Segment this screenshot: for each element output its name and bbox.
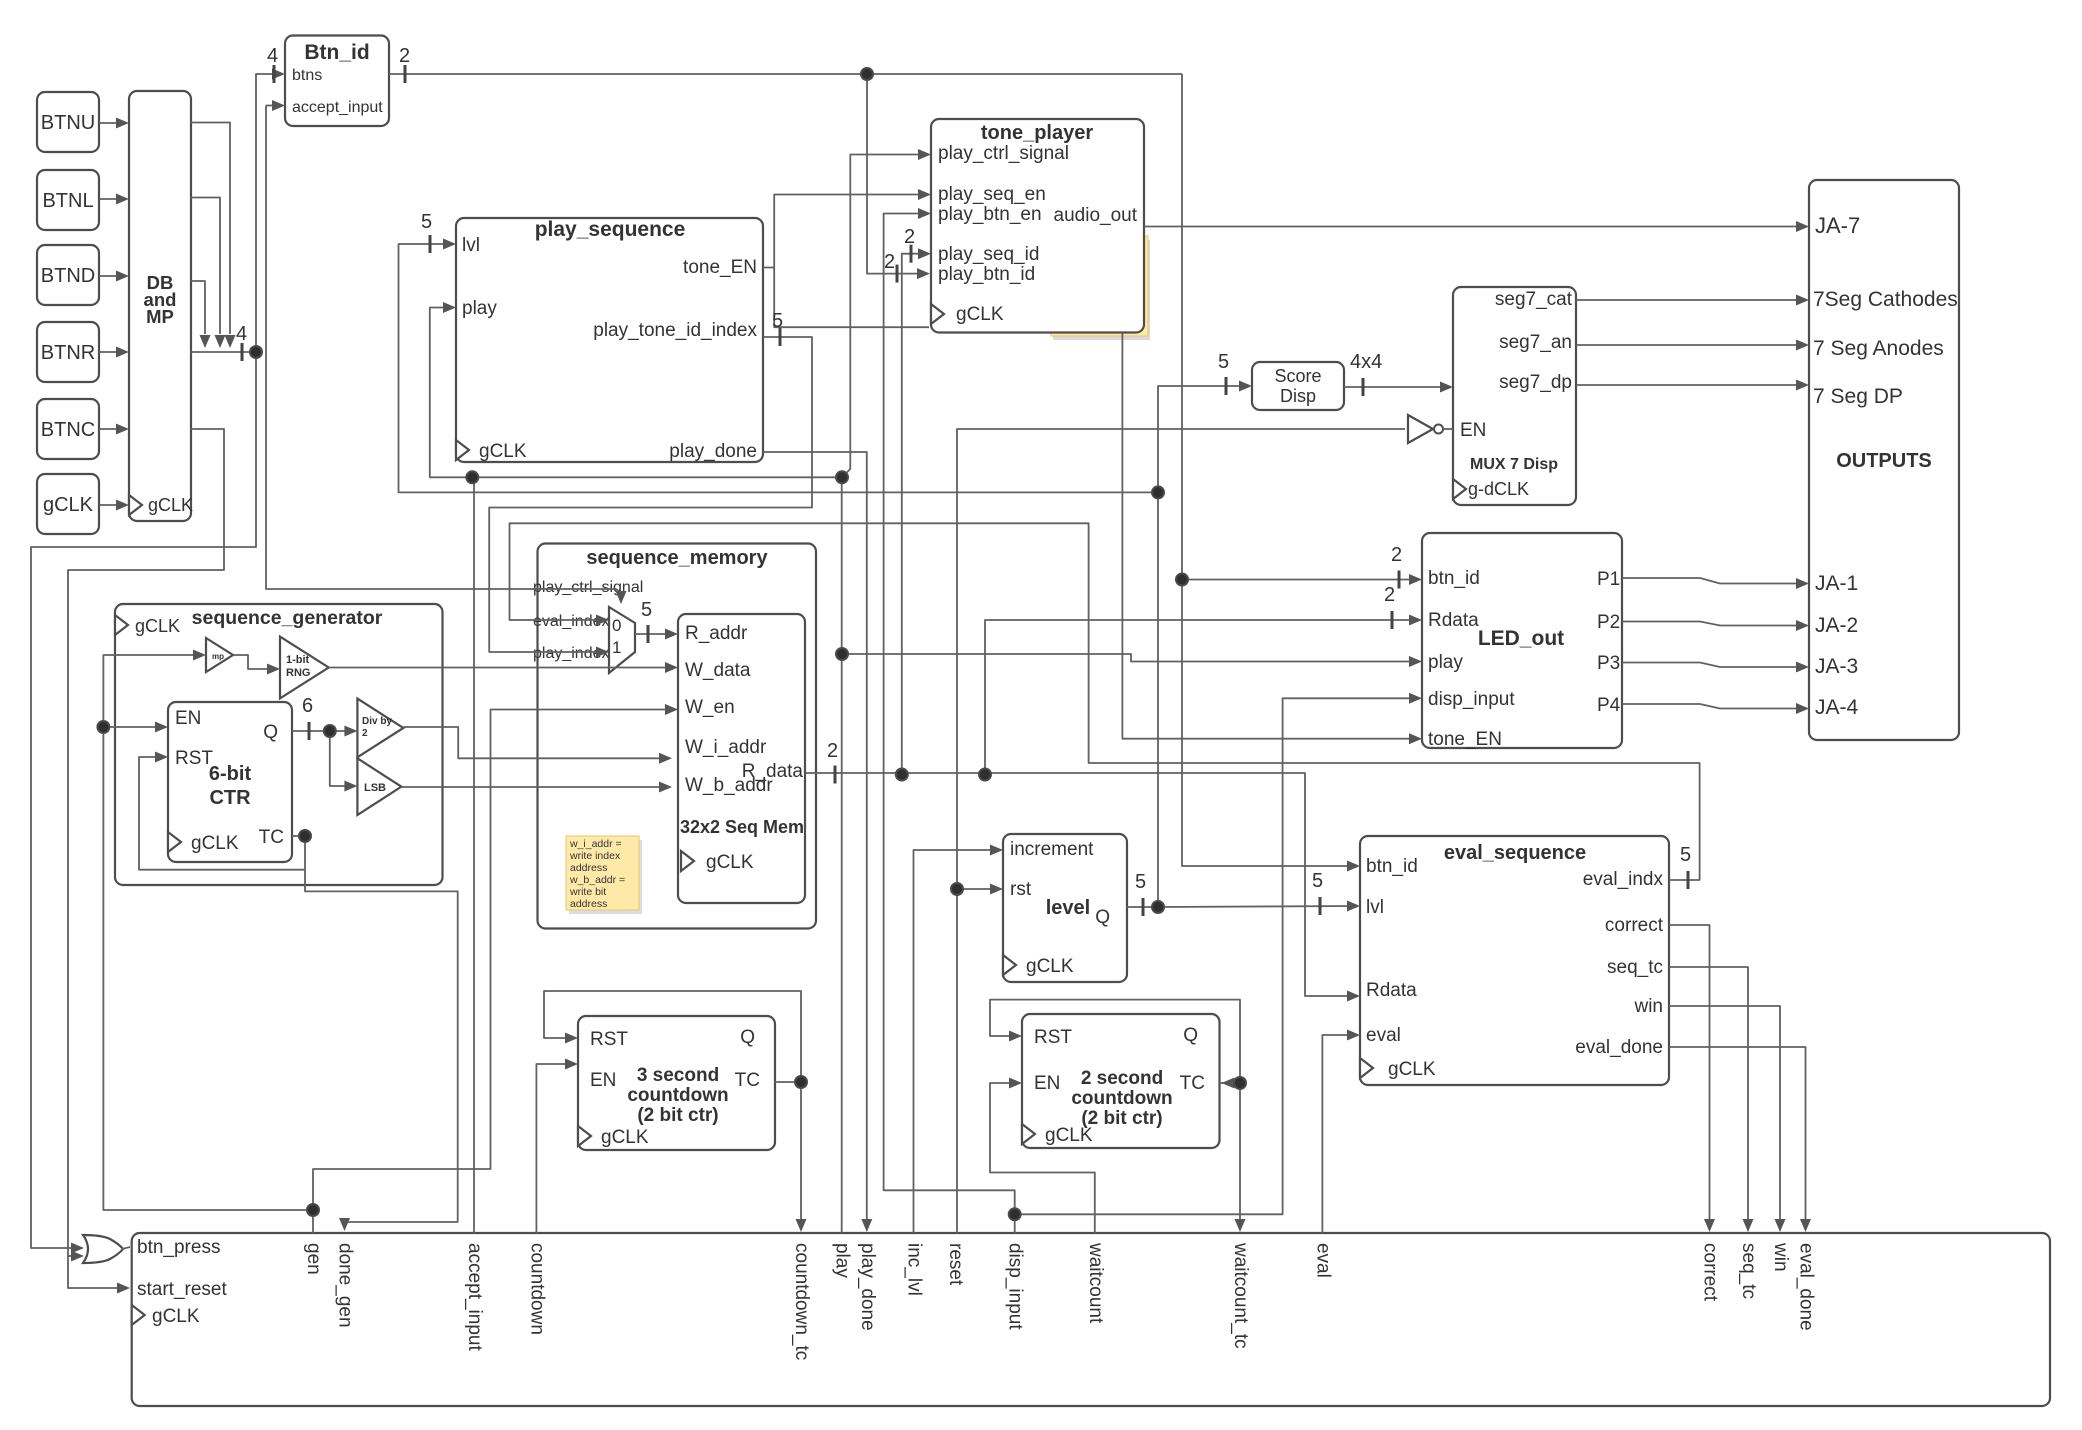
svg-text:BTNU: BTNU — [41, 112, 95, 134]
svg-text:correct: correct — [1700, 1243, 1721, 1302]
svg-text:play_done: play_done — [669, 441, 757, 462]
svg-text:2: 2 — [1391, 544, 1402, 566]
svg-text:EN: EN — [175, 708, 201, 729]
svg-text:waitcount_tc: waitcount_tc — [1230, 1242, 1251, 1349]
svg-text:JA-7: JA-7 — [1815, 213, 1860, 238]
svg-text:tone_player: tone_player — [981, 122, 1093, 144]
svg-text:play_ctrl_signal: play_ctrl_signal — [533, 579, 643, 596]
svg-text:5: 5 — [421, 211, 432, 233]
svg-text:countdown: countdown — [627, 1085, 728, 1106]
svg-text:6: 6 — [302, 695, 313, 717]
svg-text:2: 2 — [884, 251, 895, 273]
svg-text:EN: EN — [590, 1070, 616, 1091]
svg-text:1: 1 — [612, 638, 621, 657]
svg-text:7 Seg DP: 7 Seg DP — [1813, 385, 1903, 408]
svg-text:eval_done: eval_done — [1575, 1037, 1663, 1058]
svg-text:gCLK: gCLK — [956, 304, 1004, 325]
svg-text:2: 2 — [1384, 584, 1395, 606]
svg-text:JA-2: JA-2 — [1815, 614, 1858, 637]
svg-text:eval: eval — [1366, 1025, 1401, 1046]
svg-text:3 second: 3 second — [637, 1065, 719, 1086]
svg-text:4x4: 4x4 — [1350, 351, 1382, 373]
svg-text:address: address — [570, 898, 607, 910]
svg-text:5: 5 — [641, 599, 652, 621]
svg-text:countdown: countdown — [526, 1243, 547, 1335]
svg-text:gCLK: gCLK — [601, 1127, 649, 1148]
svg-text:P3: P3 — [1597, 653, 1620, 674]
svg-text:write index: write index — [569, 850, 621, 862]
svg-text:tone_EN: tone_EN — [1428, 729, 1502, 750]
svg-text:mp: mp — [212, 652, 224, 661]
svg-text:play_done: play_done — [857, 1243, 878, 1331]
svg-text:LED_out: LED_out — [1478, 627, 1564, 650]
svg-text:Q: Q — [740, 1027, 755, 1048]
svg-text:win: win — [1633, 996, 1663, 1017]
svg-text:play_btn_id: play_btn_id — [938, 264, 1035, 285]
svg-text:0: 0 — [612, 616, 621, 635]
svg-text:waitcount: waitcount — [1085, 1242, 1106, 1324]
svg-text:Score: Score — [1274, 366, 1321, 386]
svg-text:accept_input: accept_input — [464, 1243, 485, 1351]
svg-text:RNG: RNG — [286, 667, 310, 679]
svg-text:accept_input: accept_input — [292, 99, 383, 116]
svg-text:W_b_addr: W_b_addr — [685, 775, 773, 796]
svg-text:32x2 Seq Mem: 32x2 Seq Mem — [680, 817, 804, 837]
svg-text:P1: P1 — [1597, 569, 1620, 590]
svg-text:gCLK: gCLK — [479, 441, 527, 462]
svg-text:play: play — [1428, 652, 1463, 673]
svg-text:gCLK: gCLK — [191, 833, 239, 854]
svg-text:gCLK: gCLK — [43, 494, 94, 516]
svg-text:JA-1: JA-1 — [1815, 572, 1858, 595]
svg-text:address: address — [570, 862, 607, 874]
svg-text:w_b_addr =: w_b_addr = — [569, 874, 625, 886]
svg-text:gCLK: gCLK — [135, 616, 180, 636]
svg-text:countdown_tc: countdown_tc — [791, 1243, 812, 1360]
svg-text:level: level — [1046, 897, 1090, 919]
svg-text:g-dCLK: g-dCLK — [1468, 479, 1529, 499]
svg-text:Div by: Div by — [362, 716, 392, 727]
svg-text:win: win — [1770, 1242, 1791, 1272]
svg-text:rst: rst — [1010, 879, 1032, 900]
svg-text:gCLK: gCLK — [148, 495, 193, 515]
svg-text:write bit: write bit — [569, 886, 606, 898]
svg-text:seg7_an: seg7_an — [1499, 332, 1572, 353]
svg-text:W_data: W_data — [685, 660, 751, 681]
svg-text:OUTPUTS: OUTPUTS — [1836, 450, 1932, 472]
svg-text:1-bit: 1-bit — [286, 654, 310, 666]
svg-text:TC: TC — [1180, 1073, 1205, 1094]
svg-text:w_i_addr =: w_i_addr = — [569, 838, 622, 850]
svg-text:W_i_addr: W_i_addr — [685, 737, 767, 758]
svg-text:seq_tc: seq_tc — [1607, 957, 1663, 978]
svg-text:RST: RST — [175, 748, 213, 769]
svg-text:W_en: W_en — [685, 697, 735, 718]
svg-text:eval: eval — [1312, 1243, 1333, 1278]
svg-text:eval_done: eval_done — [1796, 1243, 1817, 1331]
svg-text:play_seq_id: play_seq_id — [938, 244, 1039, 265]
svg-text:R_addr: R_addr — [685, 623, 748, 644]
svg-text:2: 2 — [362, 728, 368, 739]
svg-text:play: play — [832, 1243, 853, 1278]
svg-text:(2 bit ctr): (2 bit ctr) — [1081, 1108, 1162, 1129]
svg-text:CTR: CTR — [209, 787, 251, 809]
svg-text:Q: Q — [1183, 1025, 1198, 1046]
svg-text:eval_sequence: eval_sequence — [1444, 842, 1586, 864]
svg-text:P4: P4 — [1597, 695, 1621, 716]
svg-text:Btn_id: Btn_id — [304, 41, 369, 64]
svg-text:MUX 7 Disp: MUX 7 Disp — [1470, 456, 1558, 473]
svg-text:increment: increment — [1010, 839, 1094, 860]
svg-text:play_seq_en: play_seq_en — [938, 184, 1046, 205]
svg-text:disp_input: disp_input — [1005, 1243, 1026, 1330]
svg-text:2 second: 2 second — [1081, 1068, 1163, 1089]
svg-text:inc_lvl: inc_lvl — [904, 1243, 925, 1296]
svg-text:4: 4 — [267, 45, 278, 67]
svg-text:seq_tc: seq_tc — [1738, 1243, 1759, 1299]
svg-text:Rdata: Rdata — [1428, 610, 1479, 631]
svg-text:JA-4: JA-4 — [1815, 696, 1859, 719]
svg-text:eval_indx: eval_indx — [1583, 869, 1664, 890]
svg-text:lvl: lvl — [1366, 897, 1384, 918]
svg-text:5: 5 — [772, 310, 783, 332]
svg-text:audio_out: audio_out — [1054, 205, 1138, 226]
svg-text:countdown: countdown — [1071, 1088, 1172, 1109]
svg-text:7Seg Cathodes: 7Seg Cathodes — [1813, 288, 1958, 311]
svg-text:LSB: LSB — [364, 782, 386, 794]
svg-text:2: 2 — [827, 740, 838, 762]
svg-text:BTNC: BTNC — [41, 419, 95, 441]
svg-text:gCLK: gCLK — [706, 852, 754, 873]
svg-text:RST: RST — [590, 1029, 628, 1050]
svg-text:2: 2 — [904, 226, 915, 248]
svg-text:reset: reset — [945, 1243, 966, 1286]
svg-text:6-bit: 6-bit — [209, 763, 252, 785]
svg-text:play_sequence: play_sequence — [535, 218, 686, 241]
svg-text:gCLK: gCLK — [152, 1306, 200, 1327]
svg-text:BTNR: BTNR — [41, 342, 95, 364]
svg-text:2: 2 — [399, 45, 410, 67]
svg-text:btn_press: btn_press — [137, 1237, 220, 1258]
svg-text:btn_id: btn_id — [1428, 568, 1480, 589]
svg-text:RST: RST — [1034, 1027, 1072, 1048]
svg-text:5: 5 — [1218, 351, 1229, 373]
svg-text:seg7_cat: seg7_cat — [1495, 289, 1573, 310]
svg-text:seg7_dp: seg7_dp — [1499, 372, 1572, 393]
svg-text:play_ctrl_signal: play_ctrl_signal — [938, 143, 1069, 164]
svg-text:sequence_generator: sequence_generator — [192, 607, 383, 629]
svg-text:disp_input: disp_input — [1428, 689, 1515, 710]
svg-text:Disp: Disp — [1280, 386, 1316, 406]
svg-text:7 Seg Anodes: 7 Seg Anodes — [1813, 337, 1944, 360]
svg-text:Q: Q — [263, 722, 278, 743]
svg-text:play_tone_id_index: play_tone_id_index — [593, 320, 757, 341]
svg-text:Rdata: Rdata — [1366, 980, 1417, 1001]
svg-text:btn_id: btn_id — [1366, 856, 1418, 877]
svg-text:play_btn_en: play_btn_en — [938, 204, 1042, 225]
svg-text:5: 5 — [1312, 870, 1323, 892]
svg-text:JA-3: JA-3 — [1815, 655, 1858, 678]
svg-text:gCLK: gCLK — [1388, 1059, 1436, 1080]
svg-text:tone_EN: tone_EN — [683, 257, 757, 278]
svg-text:start_reset: start_reset — [137, 1279, 227, 1300]
svg-text:5: 5 — [1135, 871, 1146, 893]
svg-text:TC: TC — [735, 1070, 760, 1091]
svg-text:4: 4 — [236, 323, 247, 345]
svg-text:play: play — [462, 298, 497, 319]
svg-text:Q: Q — [1095, 907, 1110, 928]
svg-text:EN: EN — [1034, 1073, 1060, 1094]
svg-text:BTND: BTND — [41, 265, 95, 287]
svg-text:done_gen: done_gen — [335, 1243, 356, 1328]
svg-text:MP: MP — [146, 306, 174, 327]
svg-text:btns: btns — [292, 67, 322, 84]
svg-text:lvl: lvl — [462, 235, 480, 256]
svg-text:P2: P2 — [1597, 612, 1620, 633]
svg-text:EN: EN — [1460, 420, 1486, 441]
svg-text:gCLK: gCLK — [1026, 956, 1074, 977]
svg-text:correct: correct — [1605, 915, 1664, 936]
svg-text:sequence_memory: sequence_memory — [586, 547, 768, 569]
svg-text:TC: TC — [259, 827, 284, 848]
svg-text:gCLK: gCLK — [1045, 1125, 1093, 1146]
svg-text:gen: gen — [303, 1243, 324, 1275]
svg-text:5: 5 — [1680, 844, 1691, 866]
svg-text:BTNL: BTNL — [42, 190, 93, 212]
svg-text:(2 bit ctr): (2 bit ctr) — [637, 1105, 718, 1126]
